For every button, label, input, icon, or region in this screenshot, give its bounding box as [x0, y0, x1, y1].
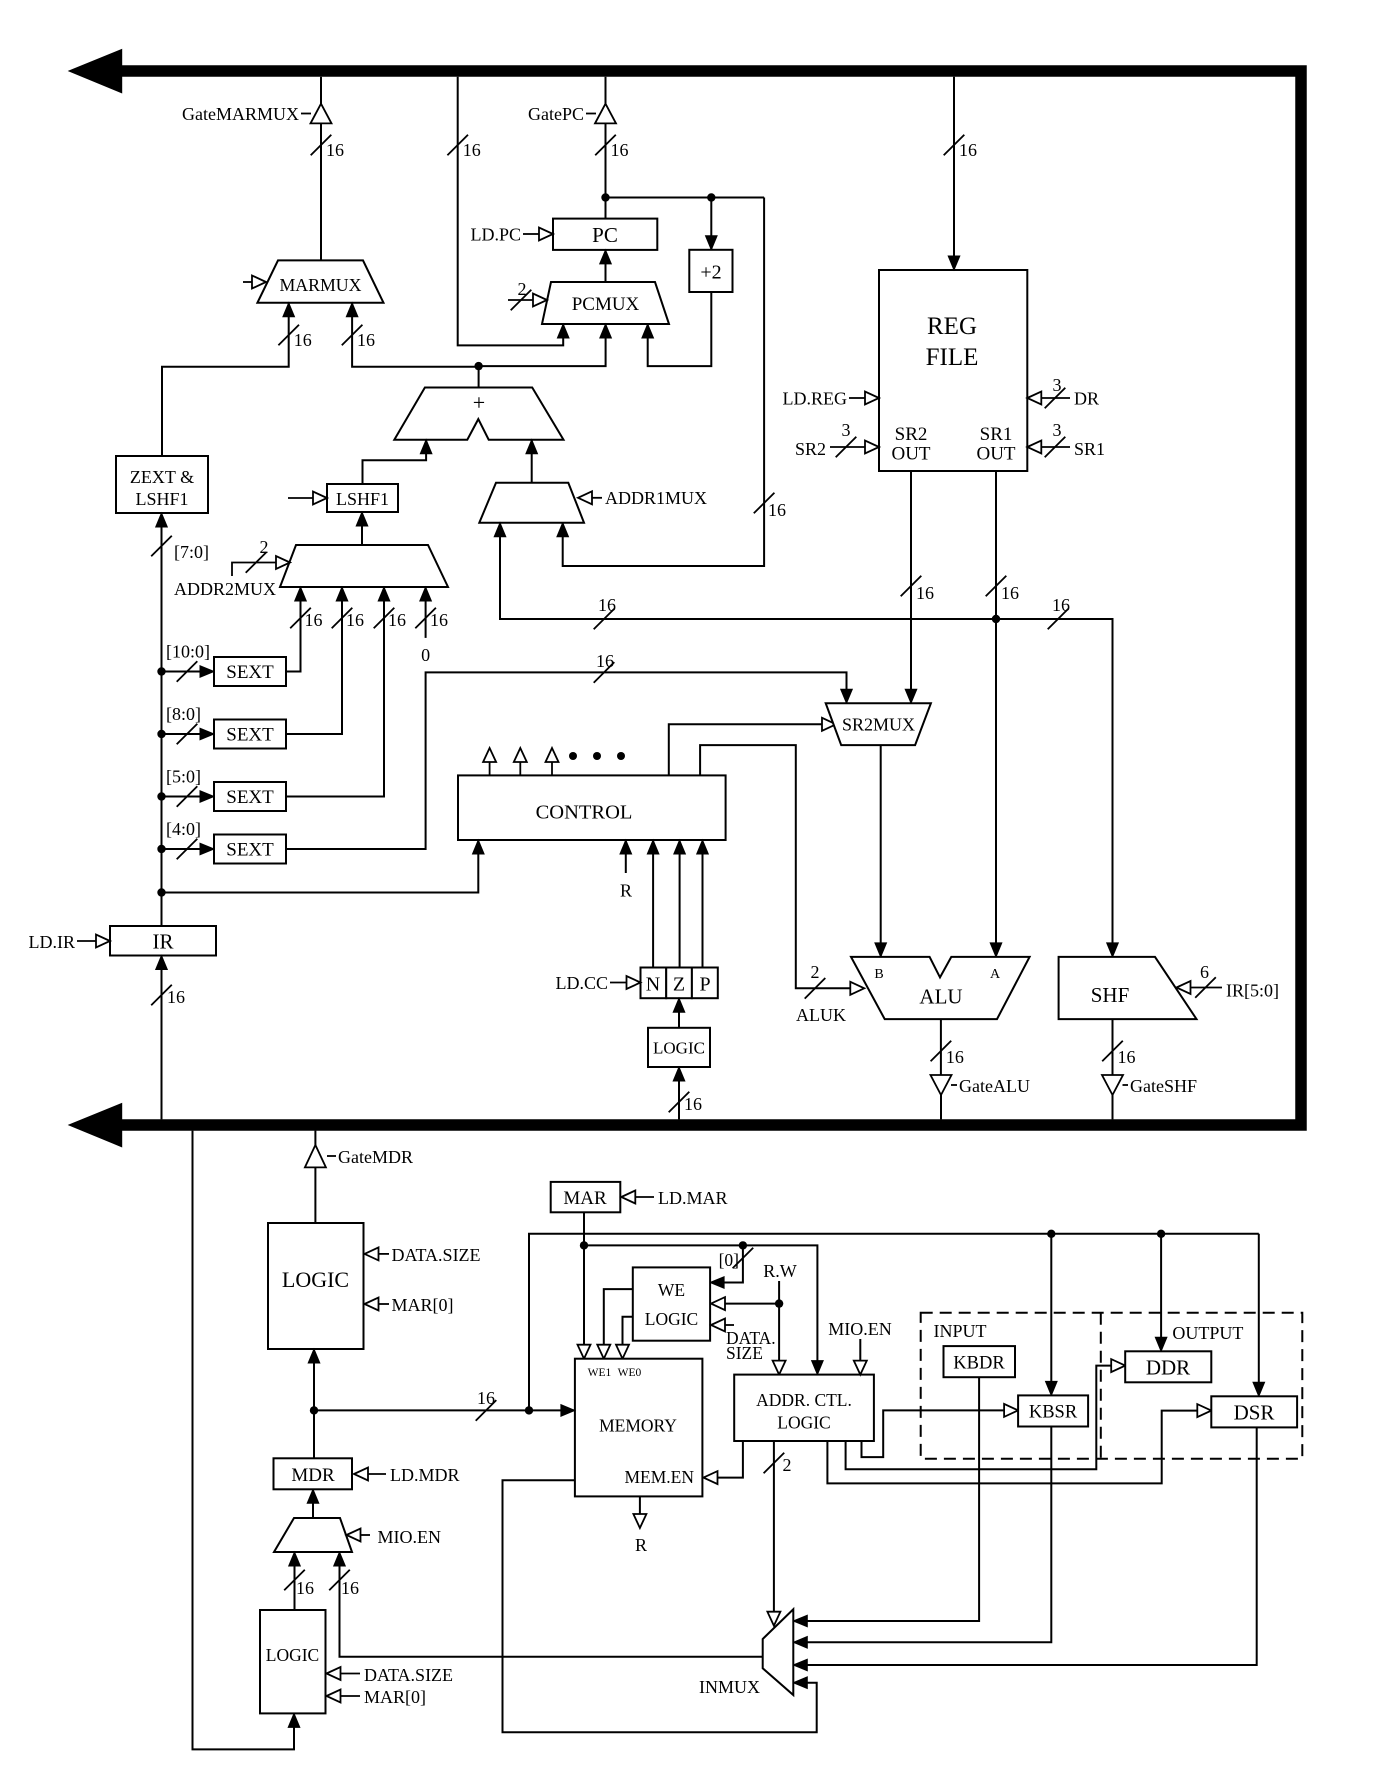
- svg-text:IR[5:0]: IR[5:0]: [1226, 981, 1279, 1001]
- label ADDR1MUX with open arrow: [578, 488, 707, 508]
- svg-text:WE1: WE1: [588, 1367, 612, 1379]
- SHF control IR[5:0] with 6 slash: [1177, 962, 1280, 1001]
- wire SR2MUX output to ALU B: [875, 745, 887, 957]
- svg-text:16: 16: [346, 610, 364, 630]
- node KBSR data junction: [1047, 1230, 1055, 1238]
- svg-text:[10:0]: [10:0]: [166, 642, 210, 662]
- wire SHF output with 16 slash: [1102, 1019, 1135, 1075]
- label LD.REG with open arrow: [783, 389, 880, 409]
- dashed box INPUT/OUTPUT devices: [921, 1313, 1303, 1459]
- svg-text:KBDR: KBDR: [953, 1354, 1005, 1374]
- bus: main processor bus (top run, right run, bottom run): [118, 71, 1301, 1125]
- constant 0 input of ADDR2MUX: [415, 587, 448, 665]
- svg-text:DR: DR: [1074, 389, 1099, 409]
- wire INMUX output to MIO.EN mux: [329, 1552, 763, 1657]
- adder + (address adder): [394, 388, 563, 440]
- svg-text:[0]: [0]: [719, 1250, 739, 1270]
- svg-text:16: 16: [463, 140, 481, 160]
- svg-text:LOGIC: LOGIC: [266, 1645, 319, 1665]
- svg-text:2: 2: [811, 962, 820, 982]
- label SR2 with 3 slash: [795, 420, 879, 459]
- tri-state driver GateMARMUX: [311, 104, 332, 124]
- wire SR2 OUT to SR2MUX with 16 slash: [901, 471, 934, 703]
- label DATA.SIZE into WE LOGIC: [711, 1319, 776, 1364]
- label LD.MDR with open arrow: [354, 1465, 460, 1485]
- svg-text:INPUT: INPUT: [934, 1321, 987, 1341]
- node PC output junction: [601, 193, 609, 201]
- svg-text:2: 2: [260, 537, 269, 557]
- svg-text:LOGIC: LOGIC: [645, 1309, 698, 1329]
- wire SR1 branch to ADDR1MUX input 1 with 16 slash: [494, 523, 996, 630]
- svg-text:INMUX: INMUX: [699, 1677, 760, 1697]
- label SR1 with 3 slash: [1027, 420, 1105, 459]
- wire adder output to junction: [478, 366, 480, 387]
- wire bus to REG FILE with 16 slash: [944, 77, 977, 270]
- svg-text:[7:0]: [7:0]: [174, 542, 209, 562]
- svg-text:ALUK: ALUK: [796, 1005, 846, 1025]
- svg-text:GateSHF: GateSHF: [1130, 1076, 1197, 1096]
- MARMUX select lead: [243, 276, 266, 289]
- wire junction to MDR top: [313, 1410, 315, 1458]
- mux INMUX: [763, 1609, 794, 1695]
- block ZEXT & LSHF1: [116, 456, 208, 513]
- svg-text:OUT: OUT: [976, 444, 1015, 465]
- wire SEXT [8:0] output to ADDR2MUX with 16 slash: [286, 587, 364, 734]
- label GateSHF: [1123, 1076, 1198, 1096]
- label OUTPUT: [1172, 1323, 1243, 1343]
- svg-text:OUTPUT: OUTPUT: [1172, 1323, 1243, 1343]
- mux SR2MUX: [826, 703, 931, 745]
- wire adder out run to MARMUX input 2 with 16 slash: [342, 303, 479, 367]
- svg-text:16: 16: [357, 330, 375, 350]
- svg-text:WE: WE: [658, 1280, 685, 1300]
- ellipsis dots above CONTROL: [569, 752, 625, 760]
- svg-text:16: 16: [167, 987, 185, 1007]
- svg-text:KBSR: KBSR: [1029, 1403, 1078, 1423]
- svg-text:3: 3: [1053, 420, 1062, 440]
- svg-text:SEXT: SEXT: [226, 787, 274, 808]
- svg-text:LOGIC: LOGIC: [282, 1267, 349, 1292]
- wire bus to IR with 16 slash: [151, 956, 185, 1120]
- svg-text:16: 16: [1052, 595, 1070, 615]
- CONTROL output open arrow at x=552: [546, 748, 559, 775]
- wire PC out right run: [606, 197, 765, 199]
- block SEXT [10:0]: [214, 657, 286, 686]
- svg-text:ZEXT &: ZEXT &: [130, 467, 194, 487]
- svg-text:ADDR1MUX: ADDR1MUX: [605, 488, 707, 508]
- node MAR fanout junction: [580, 1241, 588, 1249]
- svg-text:16: 16: [959, 140, 977, 160]
- node MDR output junction: [310, 1406, 318, 1414]
- wire MAR to MEMORY: [583, 1212, 585, 1358]
- register DDR: [1125, 1351, 1211, 1382]
- label GatePC: [528, 104, 596, 124]
- wire SEXT [4:0] output to SR2MUX with 16 slash: [286, 651, 852, 849]
- svg-text:16: 16: [596, 651, 614, 671]
- node R.W branch junction: [775, 1299, 783, 1307]
- register KBDR: [944, 1346, 1016, 1377]
- wire PC to ADDR1MUX input 2 with 16 slash: [557, 198, 786, 567]
- svg-text:SR2: SR2: [795, 439, 826, 459]
- svg-text:PC: PC: [592, 223, 618, 247]
- svg-text:16: 16: [388, 610, 406, 630]
- wire LOGIC to NZP: [673, 998, 685, 1028]
- wire GateMARMUX to MARMUX with 16 slash: [311, 123, 344, 260]
- svg-text:MIO.EN: MIO.EN: [378, 1527, 442, 1547]
- svg-text:WE0: WE0: [618, 1367, 642, 1379]
- svg-text:DATA.SIZE: DATA.SIZE: [364, 1665, 453, 1685]
- svg-text:LD.IR: LD.IR: [29, 932, 76, 952]
- svg-text:DATA.SIZE: DATA.SIZE: [392, 1245, 481, 1265]
- svg-text:LD.CC: LD.CC: [555, 973, 608, 993]
- block CONTROL: [458, 775, 726, 840]
- svg-text:3: 3: [842, 420, 851, 440]
- svg-text:P: P: [699, 974, 710, 996]
- svg-text:SR1: SR1: [980, 424, 1013, 445]
- wire N to CONTROL: [647, 840, 659, 968]
- wire MIO.EN mux to MDR: [307, 1489, 319, 1518]
- signal R.W: [763, 1261, 797, 1375]
- svg-text:[5:0]: [5:0]: [166, 767, 201, 787]
- svg-text:SR2MUX: SR2MUX: [842, 715, 915, 735]
- wire ADDR2MUX output to LSHF1: [356, 512, 368, 545]
- alu ALU: [851, 957, 1030, 1019]
- label GateMDR: [327, 1147, 413, 1167]
- svg-text:GateALU: GateALU: [959, 1076, 1030, 1096]
- tri-state driver GateSHF: [1102, 1075, 1123, 1095]
- svg-text:PCMUX: PCMUX: [572, 294, 640, 315]
- wire CONTROL to SR2MUX select: [669, 718, 836, 776]
- CONTROL output open arrow at x=520.3: [514, 748, 527, 775]
- label GateALU: [951, 1076, 1030, 1096]
- wire ADDR.CTL.LOGIC select to INMUX with 2 slash: [764, 1441, 792, 1626]
- wire IR to ZEXT with [7:0] slash: [151, 513, 209, 926]
- svg-text:16: 16: [477, 1388, 495, 1408]
- wire LOGIC to GateMDR: [314, 1167, 316, 1223]
- svg-text:LOGIC: LOGIC: [777, 1413, 830, 1433]
- mux MARMUX: [257, 260, 383, 302]
- register MAR: [551, 1182, 621, 1212]
- svg-text:LD.PC: LD.PC: [470, 225, 521, 245]
- wire GateALU to bus: [940, 1095, 942, 1119]
- wire MAR[0] to WE LOGIC with [0] slash: [710, 1245, 753, 1288]
- label INPUT: [934, 1321, 987, 1341]
- sign-extend SEXT [10:0] input lead: [162, 642, 215, 682]
- label DATA.SIZE into LOGIC: [365, 1245, 481, 1265]
- svg-text:LSHF1: LSHF1: [336, 489, 389, 509]
- label LD.CC with open arrow: [555, 973, 640, 993]
- svg-text:GateMDR: GateMDR: [338, 1147, 413, 1167]
- register KBSR: [1018, 1395, 1088, 1426]
- wire ZEXT to MARMUX input 1 with 16 slash: [162, 303, 312, 456]
- register P: [692, 968, 718, 999]
- svg-text:ALU: ALU: [919, 985, 962, 1009]
- svg-text:2: 2: [783, 1455, 792, 1475]
- MIO.EN select of MDR mux: [347, 1527, 442, 1547]
- wire data to DDR: [1155, 1234, 1167, 1352]
- svg-text:ADDR2MUX: ADDR2MUX: [174, 579, 276, 599]
- mux PCMUX: [542, 282, 669, 324]
- wire SEXT [10:0] output to ADDR2MUX with 16 slash: [286, 587, 323, 672]
- svg-text:MEMORY: MEMORY: [599, 1416, 677, 1436]
- node DDR data junction: [1157, 1230, 1165, 1238]
- wire WE LOGIC WE0 to MEMORY: [616, 1317, 633, 1359]
- wire SR1 branch to SHF with 16 slash: [996, 595, 1118, 957]
- wire MEMORY R output: [633, 1496, 647, 1555]
- bus arrowhead (top left): [69, 50, 122, 93]
- sign-extend SEXT [8:0] input lead: [162, 704, 215, 744]
- block ADDR. CTL. LOGIC: [734, 1375, 874, 1441]
- svg-text:SR1: SR1: [1074, 439, 1105, 459]
- svg-text:LD.MAR: LD.MAR: [658, 1188, 728, 1208]
- wire MDR to LOGIC: [308, 1349, 320, 1410]
- svg-text:SIZE: SIZE: [726, 1343, 763, 1363]
- wire LSHF1 output to adder: [363, 440, 432, 484]
- svg-text:+: +: [473, 390, 485, 415]
- svg-text:16: 16: [946, 1047, 964, 1067]
- svg-text:GateMARMUX: GateMARMUX: [182, 104, 299, 124]
- wire bus to GateMDR: [314, 1131, 316, 1145]
- shifter SHF: [1059, 957, 1197, 1019]
- svg-text:R: R: [635, 1535, 647, 1555]
- wire data to KBSR: [1046, 1234, 1058, 1396]
- wire data to DSR: [1253, 1234, 1265, 1397]
- svg-text:MDR: MDR: [291, 1465, 335, 1486]
- block LOGIC (MDR in logic): [260, 1610, 326, 1713]
- wire data line to device registers: [529, 1234, 1259, 1411]
- svg-text:16: 16: [305, 610, 323, 630]
- svg-text:0: 0: [421, 645, 430, 665]
- svg-text:16: 16: [768, 500, 786, 520]
- svg-text:Z: Z: [673, 974, 685, 996]
- svg-text:2: 2: [518, 279, 527, 299]
- svg-text:16: 16: [916, 583, 934, 603]
- block SEXT [5:0]: [214, 782, 286, 811]
- svg-text:16: 16: [294, 330, 312, 350]
- bus arrowhead (bottom left): [69, 1104, 122, 1147]
- wire KBSR output to INMUX: [793, 1427, 1051, 1649]
- mux ADDR2MUX: [280, 545, 448, 587]
- node memory data junction: [525, 1406, 533, 1414]
- tri-state driver GateMDR: [305, 1145, 326, 1167]
- wire ADDR1MUX output to adder: [526, 440, 538, 483]
- wire Z to CONTROL: [674, 840, 686, 968]
- svg-text:A: A: [990, 967, 1001, 982]
- register N: [641, 968, 667, 999]
- label LD.PC with open arrow: [470, 225, 553, 245]
- register IR: [110, 926, 216, 956]
- svg-text:N: N: [646, 974, 660, 996]
- svg-text:SR2: SR2: [895, 424, 928, 445]
- wire +2 output to PCMUX input 3: [642, 292, 711, 366]
- svg-text:SHF: SHF: [1091, 983, 1130, 1007]
- svg-text:MIO.EN: MIO.EN: [828, 1319, 892, 1339]
- wire KBDR output to INMUX: [793, 1377, 979, 1627]
- svg-text:REG: REG: [927, 313, 977, 340]
- wire GatePC to PC with 16 slash: [595, 123, 628, 218]
- svg-text:DSR: DSR: [1234, 1401, 1275, 1425]
- register MDR: [274, 1458, 353, 1489]
- svg-text:16: 16: [296, 1578, 314, 1598]
- label MAR[0] into LOGIC: [365, 1295, 454, 1315]
- svg-text:[8:0]: [8:0]: [166, 704, 201, 724]
- CONTROL output open arrow at x=489.6: [483, 748, 496, 775]
- svg-text:FILE: FILE: [926, 344, 979, 371]
- register DSR: [1211, 1396, 1297, 1427]
- svg-text:3: 3: [1053, 375, 1062, 395]
- wire PCMUX output to PC: [600, 250, 612, 282]
- svg-text:16: 16: [1001, 583, 1019, 603]
- block LSHF1: [327, 484, 398, 512]
- svg-text:ADDR. CTL.: ADDR. CTL.: [756, 1390, 852, 1410]
- svg-text:16: 16: [1118, 1047, 1136, 1067]
- wire GateSHF to bus: [1112, 1095, 1114, 1119]
- block LOGIC (condition codes): [648, 1028, 710, 1067]
- wire LOGIC2 to MIO.EN mux with 16 slash: [284, 1552, 314, 1610]
- CONTROL input R: [620, 840, 632, 901]
- svg-text:DDR: DDR: [1146, 1356, 1190, 1380]
- label ADDR2MUX: [174, 579, 276, 599]
- svg-text:LD.MDR: LD.MDR: [390, 1465, 460, 1485]
- tri-state driver GateALU: [931, 1075, 952, 1095]
- svg-text:16: 16: [598, 595, 616, 615]
- node IR fanout control: [157, 888, 165, 896]
- svg-text:CONTROL: CONTROL: [536, 802, 633, 824]
- svg-text:LOGIC: LOGIC: [653, 1039, 705, 1058]
- node MAR[0] branch junction: [739, 1241, 747, 1249]
- label LD.MAR with open arrow: [621, 1188, 727, 1208]
- label DR with 3 slash: [1027, 375, 1099, 409]
- svg-text:GatePC: GatePC: [528, 104, 584, 124]
- wire bus to GateMARMUX: [320, 77, 322, 104]
- register Z: [666, 968, 692, 999]
- wire SR1 OUT down with 16 slash: [986, 471, 1019, 957]
- wire +2 input: [706, 198, 718, 250]
- svg-text:6: 6: [1200, 962, 1209, 982]
- wire MEMORY data out to INMUX: [503, 1480, 817, 1732]
- wire CONTROL to ALUK select with 2 slash: [700, 745, 864, 1025]
- wire ALU output with 16 slash: [931, 1019, 964, 1075]
- svg-text:OUT: OUT: [891, 444, 930, 465]
- node IR fanout SEXT1: [157, 667, 165, 675]
- svg-text:SEXT: SEXT: [226, 840, 274, 861]
- block WE LOGIC: [633, 1267, 710, 1340]
- block REG FILE: [879, 270, 1027, 471]
- svg-text:SEXT: SEXT: [226, 662, 274, 683]
- wire ADDR.CTL.LOGIC to DDR control: [846, 1359, 1126, 1469]
- svg-text:+2: +2: [700, 262, 721, 284]
- svg-text:MAR: MAR: [563, 1188, 607, 1209]
- wire MDR data to MEMORY with 16 slash: [314, 1388, 575, 1421]
- label LD.IR with open arrow: [29, 932, 111, 952]
- svg-text:B: B: [874, 967, 883, 982]
- svg-text:MARMUX: MARMUX: [279, 275, 361, 295]
- svg-text:MEM.EN: MEM.EN: [624, 1467, 694, 1487]
- svg-text:16: 16: [341, 1578, 359, 1598]
- wire ADDR.CTL.LOGIC to DSR control: [827, 1404, 1211, 1483]
- open arrow MAR into MEMORY: [578, 1345, 591, 1359]
- label INMUX: [699, 1677, 760, 1697]
- wire ADDR.CTL.LOGIC to MEM.EN: [704, 1441, 743, 1484]
- label GateMARMUX: [182, 104, 311, 124]
- node IR fanout SEXT4: [157, 845, 165, 853]
- node +2 branch junction: [707, 193, 715, 201]
- label MIO.EN into ADDR.CTL.LOGIC: [828, 1319, 892, 1375]
- block SEXT [4:0]: [214, 835, 286, 864]
- svg-text:16: 16: [326, 140, 344, 160]
- node IR fanout SEXT2: [157, 730, 165, 738]
- svg-text:16: 16: [430, 610, 448, 630]
- wire adder out run to PCMUX input 2: [479, 324, 612, 366]
- svg-text:R.W: R.W: [763, 1261, 797, 1281]
- sign-extend SEXT [5:0] input lead: [162, 767, 215, 807]
- LSHF1 input lead: [288, 492, 327, 505]
- label DATA.SIZE into LOGIC2: [327, 1665, 454, 1685]
- svg-text:LSHF1: LSHF1: [135, 489, 188, 509]
- svg-text:R: R: [620, 881, 632, 901]
- wire R.W to WE LOGIC: [711, 1297, 779, 1310]
- wire bus to LOGIC with 16 slash: [669, 1067, 702, 1119]
- mux ADDR1MUX: [479, 483, 584, 523]
- block SEXT [8:0]: [214, 720, 286, 749]
- svg-text:LD.REG: LD.REG: [783, 389, 848, 409]
- svg-text:MAR[0]: MAR[0]: [364, 1687, 426, 1707]
- wire MAR branch to ADDR.CTL.LOGIC: [584, 1245, 823, 1374]
- tri-state driver GatePC: [595, 104, 616, 124]
- ADDR2MUX select lead with 2 slash: [232, 537, 290, 576]
- block LOGIC (MDR out logic): [268, 1223, 364, 1349]
- svg-text:16: 16: [684, 1094, 702, 1114]
- register PC: [553, 219, 657, 250]
- node adder output junction: [474, 362, 482, 370]
- node SR1 branch junction: [992, 615, 1000, 623]
- svg-text:[4:0]: [4:0]: [166, 819, 201, 839]
- wire ADDR.CTL.LOGIC to KBSR control: [862, 1404, 1019, 1457]
- wire P to CONTROL: [697, 840, 709, 968]
- adder +2: [689, 250, 732, 292]
- wire DSR output to INMUX: [793, 1427, 1256, 1670]
- wire bus to LOGIC2 (far left feedback): [193, 1131, 300, 1750]
- svg-text:16: 16: [611, 140, 629, 160]
- mux MIO.EN (MDR input mux): [274, 1518, 352, 1552]
- svg-text:SEXT: SEXT: [226, 725, 274, 746]
- label MAR[0] into LOGIC2: [327, 1687, 427, 1707]
- block MEMORY: [575, 1359, 703, 1497]
- svg-text:MAR[0]: MAR[0]: [392, 1295, 454, 1315]
- svg-text:IR: IR: [153, 930, 174, 954]
- wire SEXT [5:0] output to ADDR2MUX with 16 slash: [286, 587, 406, 797]
- sign-extend SEXT [4:0] input lead: [162, 819, 215, 859]
- wire IR fanout to CONTROL: [162, 840, 485, 893]
- wire bus to GatePC: [605, 77, 607, 104]
- wire WE LOGIC WE1 to MEMORY: [597, 1289, 633, 1359]
- wire bus to PCMUX input 1 with 16 slash: [447, 77, 569, 346]
- PCMUX select lead with 2 slash: [508, 279, 547, 310]
- node IR fanout SEXT3: [157, 792, 165, 800]
